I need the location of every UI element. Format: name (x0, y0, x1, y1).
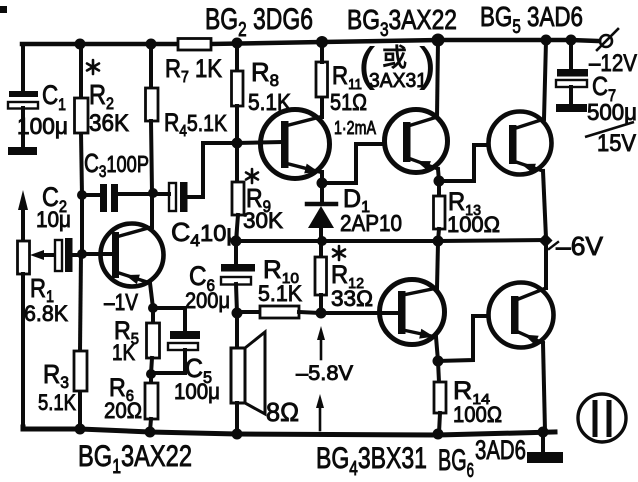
capacitor C5 (151, 308, 200, 373)
node bottom junction (150,432) (145, 427, 156, 438)
capacitor C2 (55, 238, 82, 272)
node top rail junction x=80 (75, 39, 86, 50)
input arrow (18, 190, 28, 241)
node -6V diamond (538, 233, 552, 247)
wire vertical x=81 (R2/C3/base/R3 chain) (80, 44, 82, 429)
resistor R5 (147, 308, 160, 374)
node junction (82,195) (77, 190, 87, 200)
wire BG4 emitter to BG6 base (438, 316, 488, 361)
node top rail junction x=322 (316, 36, 328, 48)
transistor BG1 (82, 194, 164, 308)
svg-text:–5.8V: –5.8V (296, 362, 353, 385)
capacitor C3 (82, 184, 152, 212)
wire top rail right segment (438, 40, 599, 41)
label * (R9) (246, 169, 258, 183)
annotation -5.8V arrows (316, 326, 325, 430)
svg-text:33Ω: 33Ω (331, 286, 373, 311)
node junction (153,193) (148, 188, 158, 198)
corner print mark (0, 6, 7, 13)
svg-text:BG13AX22: BG13AX22 (78, 440, 192, 478)
wire mid rail (-6V output bus) (236, 240, 546, 241)
svg-text:8Ω: 8Ω (266, 397, 299, 427)
node bottom junction (438,434) (433, 429, 444, 440)
resistor R9 (232, 143, 244, 241)
svg-text:2AP10: 2AP10 (340, 210, 402, 236)
wire top rail mid segment (211, 40, 438, 44)
svg-text:100μ: 100μ (17, 113, 68, 139)
transistor BG5 (489, 41, 552, 238)
ground (C1) (8, 147, 37, 155)
label * (R2) (87, 60, 99, 74)
node junction (151,374) (146, 369, 156, 379)
node junction (237,313) (232, 308, 243, 319)
transistor BG3 (385, 41, 448, 181)
resistor R8 (232, 43, 244, 143)
svg-text:(: ( (359, 38, 375, 90)
svg-text:100μ: 100μ (174, 379, 220, 404)
resistor R4 (146, 44, 159, 193)
terminal -12V input (597, 29, 618, 50)
label * (R12) (333, 246, 345, 260)
svg-text:5.1K: 5.1K (38, 390, 76, 415)
svg-text:C410μ: C410μ (171, 217, 240, 250)
transistor BG2 (237, 97, 330, 183)
diode D1 (307, 183, 336, 241)
svg-text:20Ω: 20Ω (104, 398, 142, 423)
svg-text:5.1K: 5.1K (258, 281, 302, 306)
svg-text:30K: 30K (243, 208, 283, 233)
svg-text:500μ: 500μ (587, 99, 637, 125)
node junction (438,361) (433, 356, 444, 367)
resistor R14 (434, 361, 446, 433)
node junction (237,143) (232, 138, 243, 149)
svg-text:1·2mA: 1·2mA (334, 118, 376, 138)
wire emitter BG1 node (148, 303, 158, 313)
svg-text:BG43BX31: BG43BX31 (316, 442, 427, 480)
svg-text:1K: 1K (112, 340, 135, 365)
node top rail junction x=237 (232, 38, 243, 49)
svg-text:3AX31: 3AX31 (369, 70, 427, 92)
svg-text:–6V: –6V (556, 231, 604, 261)
transistor BG6 (489, 244, 554, 431)
resistor R2 (75, 98, 89, 133)
svg-text:): ) (420, 38, 435, 90)
resistor R11 (316, 42, 328, 97)
capacitor C1 (8, 44, 38, 148)
node bottom junction (237,434) (232, 429, 243, 440)
node junction (321,313) (316, 308, 327, 319)
svg-text:5.1K: 5.1K (248, 89, 292, 115)
wire top rail left segment (22, 42, 178, 47)
capacitor C7 (556, 40, 588, 112)
svg-text:BG2 3DG6: BG2 3DG6 (205, 3, 313, 41)
potentiometer R1 (18, 241, 55, 427)
resistor R7 (in top rail) (178, 39, 211, 51)
svg-text:R45.1K: R45.1K (164, 109, 228, 140)
wire bottom rail (23, 427, 555, 435)
speaker (231, 313, 265, 433)
ground (bottom right) (527, 432, 563, 463)
resistor R13 (434, 181, 446, 241)
svg-text:C3100P: C3100P (84, 148, 149, 181)
svg-text:10μ: 10μ (36, 207, 71, 232)
svg-text:51Ω: 51Ω (330, 89, 367, 115)
wire BG2 emitter to BG3 base (322, 144, 383, 183)
resistor R12 (315, 241, 327, 313)
capacitor C6 (221, 241, 255, 313)
svg-text:100Ω: 100Ω (453, 402, 502, 427)
wire BG3 emitter to BG5 base (439, 145, 488, 181)
transistor BG4 (321, 243, 445, 361)
svg-text:6.8K: 6.8K (24, 301, 68, 326)
resistor R10 (237, 306, 321, 318)
resistor R3 (74, 351, 87, 391)
svg-text:36K: 36K (89, 110, 129, 137)
svg-text:200μ: 200μ (185, 288, 230, 313)
svg-text:–1V: –1V (104, 289, 139, 315)
node top rail junction x=546 (541, 35, 552, 46)
svg-text:R7 1K: R7 1K (165, 55, 222, 86)
svg-text:15V: 15V (597, 130, 636, 157)
wire -6V tick (549, 242, 558, 249)
node top rail junction x=571 (566, 35, 577, 46)
node junction (82,254) (77, 249, 87, 259)
node top rail junction x=438 (432, 34, 445, 47)
svg-text:或: 或 (382, 44, 407, 72)
svg-text:100Ω: 100Ω (447, 212, 500, 237)
svg-text:3AD6: 3AD6 (475, 435, 526, 465)
node junction (322,241) (317, 236, 327, 246)
node top rail junction x=151 (146, 39, 157, 50)
node junction (236,241) (231, 236, 242, 247)
node bottom junction (543,432) (538, 427, 549, 438)
node junction (439,181) (434, 176, 445, 187)
capacitor C4 (153, 143, 237, 212)
node bottom junction (80,429) (75, 424, 86, 435)
node junction (322,183) (317, 178, 328, 189)
figure number 11 circled (578, 394, 626, 442)
resistor R6 (145, 374, 158, 431)
node junction (438,241) (433, 236, 444, 247)
